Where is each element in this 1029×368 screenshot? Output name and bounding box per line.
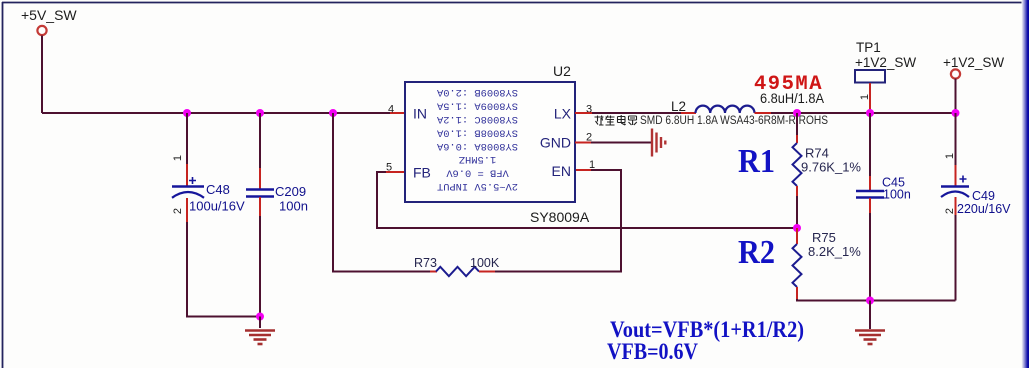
wire GND to power-ground — [591, 142, 651, 144]
wire +5V horizontal bus to IN — [42, 112, 390, 114]
junction R73 tap — [329, 109, 337, 117]
svg-text:U2: U2 — [553, 63, 571, 79]
wire C48 branch upper — [186, 113, 188, 164]
pin C48 pin2 stub — [186, 198, 188, 222]
svg-text:1.5MHZ: 1.5MHZ — [459, 153, 496, 165]
pin C209 pin1 stub — [259, 168, 261, 189]
pin C48 pin1 stub — [186, 164, 188, 186]
svg-text:SY8008C :1.2A: SY8008C :1.2A — [436, 113, 518, 125]
svg-text:L2: L2 — [671, 99, 686, 114]
svg-text:C209: C209 — [275, 184, 306, 199]
junction C49 tap — [952, 109, 960, 117]
wire LX to L2 — [592, 112, 681, 114]
svg-text:C49: C49 — [972, 189, 995, 203]
wire C49 branch lower — [955, 215, 957, 301]
capacitor C48 symbol — [172, 177, 204, 198]
pin C209 pin2 stub — [259, 197, 261, 216]
svg-text:VFB = 0.6V: VFB = 0.6V — [446, 167, 509, 179]
resistor R74 — [793, 143, 802, 186]
pin R75 pin2 stub — [796, 287, 798, 299]
pin L2 right stub — [755, 112, 772, 114]
wire R75 bottom to ground net — [797, 299, 956, 301]
svg-text:SY8008B :1.0A: SY8008B :1.0A — [436, 126, 518, 138]
port +5V_SW terminal circle — [37, 26, 46, 35]
svg-text:R1: R1 — [738, 143, 775, 180]
svg-text:TP1: TP1 — [856, 40, 881, 55]
svg-text:100K: 100K — [470, 256, 500, 270]
pin R74 pin1 stub — [796, 135, 798, 143]
svg-text:IN: IN — [413, 106, 427, 122]
svg-text:1: 1 — [172, 155, 184, 161]
pin FB stub — [386, 171, 405, 173]
wire L2 to output column — [771, 112, 956, 114]
svg-text:LX: LX — [554, 106, 572, 122]
svg-text:100n: 100n — [279, 199, 308, 214]
svg-text:2: 2 — [172, 208, 184, 214]
svg-text:C48: C48 — [206, 182, 230, 197]
svg-text:SY8009B :2.0A: SY8009B :2.0A — [436, 86, 518, 98]
label U2 rotated datasheet text — [436, 86, 518, 192]
capacitor C45 symbol — [856, 191, 884, 198]
pin GND stub — [575, 142, 591, 144]
svg-text:100u/16V: 100u/16V — [189, 199, 245, 214]
pin EN stub — [575, 169, 591, 171]
sheet border left — [2, 2, 4, 368]
resistor R73 — [436, 267, 479, 276]
wire FB net — [377, 172, 797, 228]
svg-text:+1V2_SW: +1V2_SW — [855, 55, 916, 70]
pin C45 pin2 stub — [869, 198, 871, 213]
junction C48 tap — [183, 109, 191, 117]
svg-text:5: 5 — [386, 162, 392, 174]
wire C209 branch lower — [259, 216, 261, 317]
svg-text:1: 1 — [589, 159, 595, 171]
pin R74 pin2 stub — [796, 186, 798, 196]
junction right ground — [866, 297, 874, 305]
svg-text:2V~5.5V INPUT: 2V~5.5V INPUT — [437, 180, 518, 192]
svg-text:+1V2_SW: +1V2_SW — [943, 55, 1004, 70]
junction R74 tap — [793, 109, 801, 117]
pin R75 pin1 stub — [796, 228, 798, 244]
wire ground stub right — [869, 301, 871, 330]
svg-text:VFB=0.6V: VFB=0.6V — [607, 339, 698, 364]
svg-text:8.2K_1%: 8.2K_1% — [808, 244, 861, 259]
junction FB/R74/R75 — [793, 224, 801, 232]
svg-text:2: 2 — [944, 208, 956, 214]
svg-text:EN: EN — [552, 163, 571, 179]
pin LX stub — [575, 112, 592, 114]
svg-text:R2: R2 — [738, 234, 775, 271]
svg-text:GND: GND — [540, 135, 571, 151]
junction C209 tap — [256, 109, 264, 117]
capacitor C209 symbol — [246, 190, 274, 197]
svg-text:1: 1 — [859, 94, 871, 100]
wire C48 branch lower — [187, 222, 260, 317]
svg-text:+5V_SW: +5V_SW — [21, 7, 77, 23]
svg-text:R73: R73 — [414, 256, 437, 270]
resistor R75 — [793, 244, 802, 287]
svg-text:FB: FB — [413, 165, 431, 181]
pin TP1 stub — [869, 83, 871, 113]
svg-text:R75: R75 — [812, 230, 836, 245]
wire R74 to FB junction — [796, 196, 798, 228]
label inductor spec chinese note — [595, 115, 829, 127]
capacitor C49 symbol — [941, 176, 969, 198]
junction C45/TP1 tap — [866, 109, 874, 117]
svg-text:SY8009A :1.5A: SY8009A :1.5A — [436, 100, 518, 112]
pin C45 pin1 stub — [869, 176, 871, 191]
svg-text:SY8009A: SY8009A — [530, 209, 590, 225]
right blue bar — [1022, 0, 1029, 368]
svg-text:1: 1 — [944, 153, 956, 159]
wire ground stub left — [259, 317, 261, 329]
ground right earth symbol — [855, 331, 885, 345]
pin R73 left stub — [430, 271, 437, 273]
op-amp U2 body — [405, 82, 575, 202]
wire C45 branch lower — [869, 213, 871, 301]
pin R73 right stub — [479, 271, 495, 273]
wire C209 branch upper — [259, 113, 261, 168]
svg-text:SY8008A :0.6A: SY8008A :0.6A — [436, 140, 518, 152]
pin L2 left stub — [681, 112, 696, 114]
port +1V2_SW terminal circle — [951, 69, 960, 78]
ground left earth symbol — [245, 331, 275, 345]
svg-text:220u/16V: 220u/16V — [957, 202, 1011, 216]
svg-text:100n: 100n — [883, 188, 911, 202]
inductor L2 coil — [696, 106, 755, 113]
wire C45 branch upper — [869, 113, 871, 176]
wire R74 upper stub — [796, 113, 798, 135]
wire IN pin stub — [390, 112, 405, 114]
junction left ground — [256, 313, 264, 321]
svg-text:9.76K_1%: 9.76K_1% — [801, 160, 861, 175]
wire R73/EN net — [333, 113, 430, 272]
wire +1V2 drop to bus — [955, 79, 957, 114]
svg-text:SMD 6.8UH 1.8A WSA43-6R8M-R RO: SMD 6.8UH 1.8A WSA43-6R8M-R ROHS — [640, 115, 828, 127]
wire C49 branch upper — [955, 113, 957, 165]
test point TP1 body — [855, 70, 885, 83]
pin C49 pin2 stub — [955, 197, 957, 215]
ground power-ground bar symbol (rotated) — [652, 129, 665, 157]
svg-text:495MA: 495MA — [754, 73, 823, 96]
wire +5V vertical drop — [41, 36, 43, 114]
pin C49 pin1 stub — [955, 165, 957, 186]
wire R73 to EN — [495, 170, 621, 272]
svg-text:4: 4 — [388, 104, 394, 116]
svg-text:R74: R74 — [805, 146, 829, 161]
sheet border top — [2, 2, 1029, 4]
